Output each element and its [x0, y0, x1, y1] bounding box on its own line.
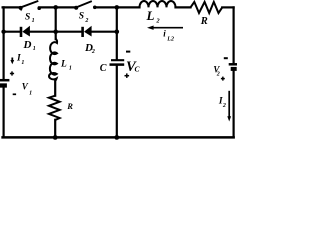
- svg-text:S: S: [25, 12, 30, 22]
- wire top between L2 and R: [176, 6, 191, 8]
- svg-text:D: D: [23, 39, 32, 51]
- label V2 with polarity: [213, 58, 227, 80]
- inductor L2: [140, 1, 176, 7]
- svg-text:1: 1: [69, 65, 72, 71]
- capacitor C: [110, 60, 125, 64]
- svg-text:1: 1: [21, 60, 24, 66]
- junction node: B2 diode row: [115, 29, 120, 34]
- wire branch B1 upper: [55, 7, 57, 39]
- wire branch B2 above C: [116, 7, 118, 59]
- label I2: [218, 97, 226, 110]
- svg-text:2: 2: [222, 103, 226, 109]
- resistor R (top right): [191, 2, 223, 13]
- svg-text:R: R: [200, 16, 208, 27]
- label D2: [84, 42, 95, 55]
- svg-text:2: 2: [155, 18, 160, 25]
- wire diode row D1 to junction: [30, 31, 56, 33]
- wire top between S1 contact and S2 pivot: [39, 6, 77, 8]
- wire branch B1 between L1 and R: [54, 80, 56, 95]
- svg-text:I: I: [16, 53, 21, 63]
- svg-text:2: 2: [84, 18, 88, 24]
- current arrow iL2: [147, 26, 183, 30]
- svg-text:1: 1: [33, 46, 36, 52]
- svg-text:C: C: [100, 63, 107, 74]
- svg-text:2: 2: [91, 49, 95, 55]
- label L2: [146, 8, 161, 25]
- diode D1: [21, 26, 30, 37]
- wire diode row left of D1: [4, 31, 20, 33]
- wire top-left segment: [3, 6, 21, 8]
- label S2: [79, 11, 89, 24]
- label L1: [60, 59, 72, 71]
- wire diode row junction to D2: [56, 31, 82, 33]
- svg-text:1: 1: [29, 90, 32, 96]
- label I1: [16, 53, 24, 66]
- wire top between S2 contact and L2: [95, 6, 140, 8]
- resistor R1 (middle vertical): [49, 96, 60, 120]
- svg-text:R: R: [66, 101, 73, 111]
- junction node: B1 diode row: [53, 29, 58, 34]
- svg-text:V: V: [22, 81, 29, 91]
- svg-text:L: L: [146, 8, 155, 23]
- wire diode row D2 to C branch: [92, 31, 117, 33]
- switch S2: [74, 1, 96, 10]
- wire branch B1 below R: [54, 120, 56, 138]
- wire top between R and right corner: [222, 6, 233, 8]
- inductor L1: [49, 39, 57, 81]
- label S1: [25, 12, 35, 24]
- junction node: left edge / diode row: [1, 30, 5, 34]
- svg-text:1: 1: [32, 18, 35, 24]
- svg-text:L2: L2: [166, 36, 174, 42]
- wire left edge lower: [2, 87, 4, 137]
- diode D2: [83, 26, 92, 37]
- wire right edge upper: [233, 7, 235, 63]
- wire left edge upper: [2, 7, 4, 78]
- wire bottom edge: [3, 136, 234, 139]
- switch S1: [19, 1, 41, 11]
- junction node: B1 top: [53, 5, 58, 10]
- svg-text:S: S: [79, 11, 84, 21]
- label D1: [23, 39, 36, 52]
- battery V2: [229, 64, 238, 69]
- svg-text:2: 2: [216, 72, 220, 78]
- wire right edge lower: [233, 71, 235, 138]
- junction node: B1 bottom: [53, 135, 58, 140]
- battery V1: [0, 80, 9, 85]
- junction node: B2 top: [115, 5, 120, 10]
- junction node: B2 bottom: [114, 135, 119, 140]
- wire branch B2 below C: [116, 66, 118, 138]
- svg-text:L: L: [60, 59, 67, 69]
- label iL2: [163, 29, 174, 43]
- current arrow I1: [10, 58, 14, 65]
- label V1 with polarity: [10, 71, 32, 96]
- label VC with polarity: [125, 52, 141, 78]
- current arrow I2: [227, 91, 231, 122]
